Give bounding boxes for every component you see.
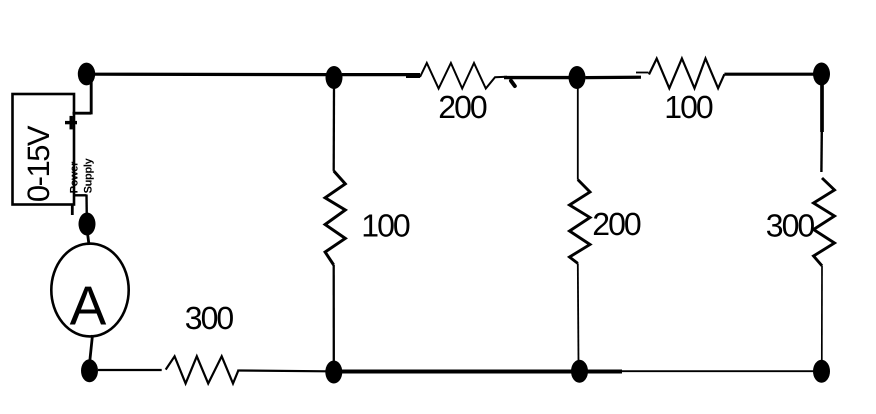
svg-text:Power: Power — [68, 161, 80, 194]
svg-text:200: 200 — [592, 206, 641, 242]
wire: top left horizontal A to B — [95, 73, 331, 77]
wire: R200v down to node H — [577, 263, 580, 362]
resistor R 100 vertical — [325, 171, 345, 265]
node F bottom-left junction — [81, 359, 98, 382]
node C top junction x=577 — [569, 66, 586, 89]
wire: bottom H to I — [622, 370, 814, 372]
wire: thick bottom G to H — [334, 370, 622, 374]
resistor R 100 horizontal top — [649, 59, 724, 89]
svg-text:100: 100 — [664, 89, 713, 125]
wire: R200 right lead to node C — [504, 76, 570, 79]
svg-text:A: A — [70, 274, 107, 336]
svg-text:300: 300 — [185, 300, 234, 336]
resistor R 200 vertical — [570, 180, 591, 264]
node A top-left junction — [78, 63, 95, 86]
wire: R300 right lead to node G — [239, 369, 327, 372]
wire: F to R300 left lead — [98, 369, 162, 371]
wire: overlap dash before R200 — [406, 76, 420, 78]
wire: node E to ammeter top — [88, 233, 90, 245]
wire: B down to R100v — [333, 86, 336, 171]
wire: plus lead vertical up to node A — [90, 74, 93, 114]
ammeter M1 circle — [51, 244, 128, 337]
node I bottom-right junction — [813, 360, 830, 383]
wire: R300v down to node I — [821, 266, 823, 362]
wire: minus lead vertical down to node E — [85, 195, 88, 219]
power supply box PS1 — [13, 94, 75, 205]
resistor R 200 horizontal top — [420, 63, 507, 89]
wire: plus lead horizontal — [73, 112, 92, 115]
svg-text:200: 200 — [438, 89, 487, 125]
wire: R100 right lead to node D — [724, 73, 814, 76]
svg-text:100: 100 — [361, 208, 410, 244]
wire: ammeter bottom to node F — [90, 335, 93, 361]
svg-text:300: 300 — [766, 208, 815, 244]
wire: overlap dash before R100 — [636, 72, 649, 74]
node G bottom junction x=334 — [325, 361, 342, 384]
stray comma mark — [511, 81, 515, 86]
minus terminal tick — [71, 205, 74, 215]
wire: R100v down to node G — [333, 265, 335, 362]
svg-text:0-15V: 0-15V — [21, 125, 56, 202]
node H bottom junction x=579 — [571, 360, 588, 383]
wire: C down to R200v — [577, 87, 579, 180]
wire: B to R200 left lead — [342, 73, 420, 76]
svg-text:Supply: Supply — [83, 157, 95, 193]
wire: C to R100 left lead — [586, 76, 642, 80]
node D top-right junction — [813, 63, 830, 86]
resistor R 300 horizontal bottom — [166, 356, 239, 383]
node E junction above ammeter — [79, 213, 96, 236]
node B top junction x=334 — [326, 66, 343, 89]
wire: minus lead horizontal — [73, 194, 87, 196]
resistor R 300 vertical — [814, 178, 835, 266]
wire: D down to R300v thick — [820, 83, 824, 132]
plus terminal + — [65, 116, 77, 129]
